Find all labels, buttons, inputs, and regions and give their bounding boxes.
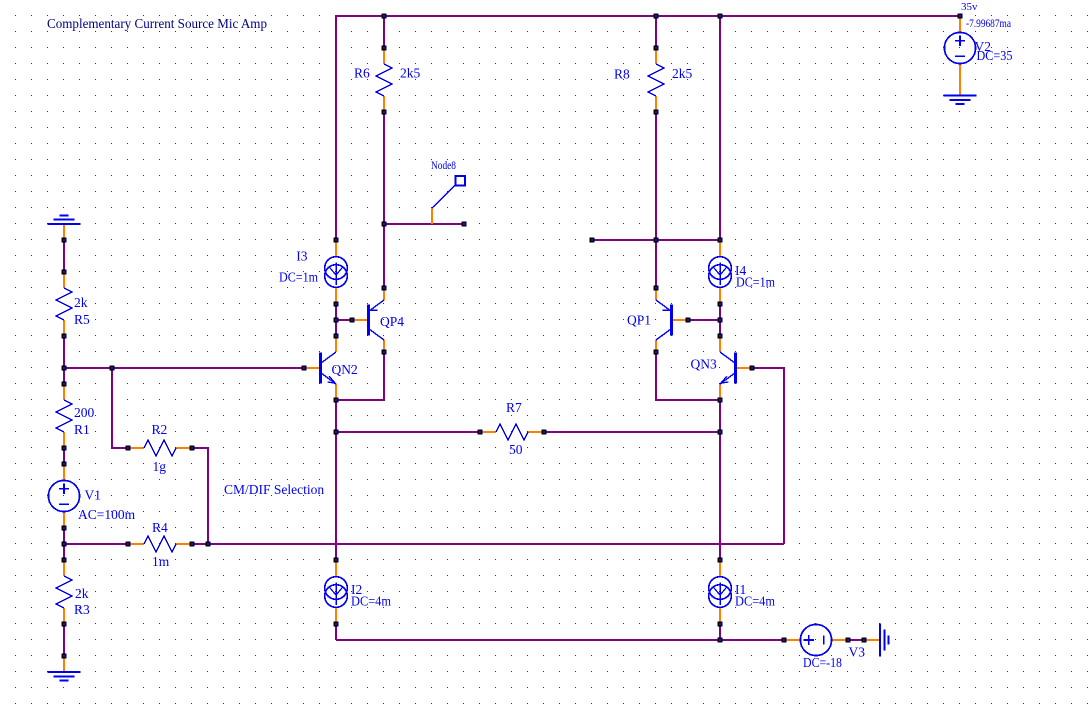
svg-text:DC=4m: DC=4m xyxy=(351,594,391,609)
wire QP4 collector to QN2 emitter xyxy=(336,352,384,400)
wire I3 bottom to QN2 collector node xyxy=(335,304,337,336)
ground GND2 (bottom left) xyxy=(63,656,65,672)
junction (64,272) xyxy=(62,270,67,275)
probe Node8 xyxy=(431,208,433,224)
junction (64,624) xyxy=(62,622,67,627)
wire selection net y544 xyxy=(208,543,784,545)
junction (64,368) xyxy=(62,366,67,371)
wire mid rail to I1 (crosses y544 net) xyxy=(719,432,721,560)
svg-text:R4: R4 xyxy=(152,520,168,535)
junction (720,336) xyxy=(718,334,723,339)
junction (384,16) xyxy=(382,14,387,19)
svg-text:-7.99687ma: -7.99687ma xyxy=(966,18,1011,30)
svg-text:QN3: QN3 xyxy=(691,357,717,372)
junction (656,48) xyxy=(654,46,659,51)
ground GND4 (right of V3) xyxy=(864,639,880,641)
junction (480,432) xyxy=(478,430,483,435)
svg-text:CM/DIF Selection: CM/DIF Selection xyxy=(224,482,324,497)
voltage source V2 xyxy=(959,16,961,33)
svg-text:V1: V1 xyxy=(85,488,102,503)
svg-text:2k5: 2k5 xyxy=(672,66,693,81)
resistor R4 xyxy=(128,543,144,545)
transistor QN2 (NPN) xyxy=(304,367,320,369)
junction (656,352) xyxy=(654,350,659,355)
ground GND3 (below V2) xyxy=(944,95,977,97)
wire R4 right to selection net xyxy=(192,543,208,545)
junction (336,240) xyxy=(334,238,339,243)
junction (336,336) xyxy=(334,334,339,339)
junction (720,432) xyxy=(718,430,723,435)
wire mid rail left of R7 xyxy=(336,431,480,433)
resistor R6 xyxy=(383,48,385,64)
junction (384,112) xyxy=(382,110,387,115)
junction (112,368) xyxy=(110,366,115,371)
junction (64,448) xyxy=(62,446,67,451)
svg-text:50: 50 xyxy=(509,442,523,457)
junction (656,112) xyxy=(654,110,659,115)
junction (64,528) xyxy=(62,526,67,531)
wire top rail +35V net xyxy=(336,15,960,17)
voltage source V3 xyxy=(784,639,801,641)
wire top rail to I4 xyxy=(719,16,721,240)
junction (656,240) xyxy=(654,238,659,243)
wire QP1 base link xyxy=(688,319,720,321)
junction (720,640) xyxy=(718,638,723,643)
junction (688,320) xyxy=(686,318,691,323)
junction (64,336) xyxy=(62,334,67,339)
junction (720,560) xyxy=(718,558,723,563)
junction (720,320) xyxy=(718,318,723,323)
svg-text:DC=1m: DC=1m xyxy=(736,275,775,290)
wire V1 to R3 xyxy=(63,528,65,560)
wire Node8 tap to QP4 emitter xyxy=(383,224,385,288)
junction (656,16) xyxy=(654,14,659,19)
junction (336,560) xyxy=(334,558,339,563)
junction (208,544) xyxy=(206,542,211,547)
junction (384,352) xyxy=(382,350,387,355)
svg-text:DC=1m: DC=1m xyxy=(279,270,318,285)
wire R8/I4 cross link xyxy=(592,239,720,241)
wire selection net up to QN3 base xyxy=(752,368,784,544)
current source I3 xyxy=(335,240,337,257)
junction (464,224) xyxy=(462,222,467,227)
svg-text:2k: 2k xyxy=(75,586,89,601)
junction (304,368) xyxy=(302,366,307,371)
wire mid rail right of R7 xyxy=(544,431,720,433)
wire QP4 base link xyxy=(336,319,352,321)
junction (784,640) xyxy=(782,638,787,643)
junction (336,624) xyxy=(334,622,339,627)
junction (848,640) xyxy=(846,638,851,643)
resistor R2 xyxy=(128,447,144,449)
wire input net to QN2 base xyxy=(64,367,304,369)
svg-text:V3: V3 xyxy=(849,645,866,660)
svg-text:QP1: QP1 xyxy=(627,313,651,328)
wire col x336 top rail to I3 xyxy=(335,16,337,240)
wire R3 to gnd xyxy=(63,624,65,656)
wire gnd to R5 xyxy=(63,240,65,272)
svg-text:R6: R6 xyxy=(354,66,370,81)
svg-text:1g: 1g xyxy=(153,459,167,474)
junction (720,400) xyxy=(718,398,723,403)
junction (384,48) xyxy=(382,46,387,51)
wire V3 to gnd xyxy=(848,639,864,641)
wire V1/R3 node to R4 left xyxy=(64,543,128,545)
junction (336,320) xyxy=(334,318,339,323)
wire R8 bottom to QP1 emitter xyxy=(655,112,657,288)
svg-text:QP4: QP4 xyxy=(380,314,404,329)
current source I2 xyxy=(335,560,337,577)
wire mid rail to I2 (crosses y544 net) xyxy=(335,432,337,560)
svg-text:I3: I3 xyxy=(296,249,307,264)
wire R5 to R1 (input tap) xyxy=(63,336,65,384)
wire R2 right down to selection net xyxy=(192,448,208,544)
junction (592,240) xyxy=(590,238,595,243)
junction (720,240) xyxy=(718,238,723,243)
junction (64,544) xyxy=(62,542,67,547)
junction (64,464) xyxy=(62,462,67,467)
transistor QP4 (PNP) xyxy=(383,288,385,301)
wire I4 bottom to QN3 collector node xyxy=(719,304,721,336)
svg-text:R2: R2 xyxy=(152,422,168,437)
wire top rail to R8 xyxy=(655,16,657,48)
ground GND1 (top left, flipped up) xyxy=(63,224,65,240)
wire top rail to R6 xyxy=(383,16,385,48)
junction (544,432) xyxy=(542,430,547,435)
junction (336,432) xyxy=(334,430,339,435)
wire R1 to V1 xyxy=(63,448,65,464)
junction (192,544) xyxy=(190,542,195,547)
wire QP1 collector to QN3 emitter xyxy=(656,352,720,400)
wire QN3 emitter to mid rail xyxy=(719,400,721,432)
svg-text:R5: R5 xyxy=(74,312,90,327)
svg-text:200: 200 xyxy=(74,405,95,420)
junction (720,624) xyxy=(718,622,723,627)
svg-text:DC=-18: DC=-18 xyxy=(803,655,842,670)
junction (192,448) xyxy=(190,446,195,451)
junction (384,288) xyxy=(382,286,387,291)
resistor R7 xyxy=(480,431,496,433)
junction (960,16) xyxy=(958,14,963,19)
wire branch to R2 left xyxy=(112,368,128,448)
svg-text:35v: 35v xyxy=(961,1,978,13)
svg-text:2k5: 2k5 xyxy=(400,66,421,81)
wire QN2 emitter to mid rail xyxy=(335,400,337,432)
svg-text:DC=4m: DC=4m xyxy=(735,594,775,609)
resistor R8 xyxy=(655,48,657,64)
resistor R5 xyxy=(63,272,65,288)
svg-text:DC=35: DC=35 xyxy=(977,48,1013,63)
junction (64,240) xyxy=(62,238,67,243)
junction (720,304) xyxy=(718,302,723,307)
svg-text:QN2: QN2 xyxy=(332,362,358,377)
resistor R3 xyxy=(63,560,65,576)
junction (752,368) xyxy=(750,366,755,371)
current source I4 xyxy=(719,240,721,257)
junction (336,304) xyxy=(334,302,339,307)
wire node8 stub xyxy=(384,223,464,225)
svg-text:R1: R1 xyxy=(74,422,90,437)
transistor QN3 (NPN) xyxy=(736,367,752,369)
junction (720,16) xyxy=(718,14,723,19)
svg-text:Complementary Current Source M: Complementary Current Source Mic Amp xyxy=(47,16,267,31)
junction (656,288) xyxy=(654,286,659,291)
junction (64,560) xyxy=(62,558,67,563)
wire I1 bottom to bottom rail xyxy=(719,624,721,640)
wire I2 bottom to bottom rail xyxy=(335,624,337,640)
junction (128,448) xyxy=(126,446,131,451)
junction (384,224) xyxy=(382,222,387,227)
junction (864,640) xyxy=(862,638,867,643)
svg-text:1m: 1m xyxy=(152,554,170,569)
svg-text:Node8: Node8 xyxy=(431,160,456,172)
svg-text:R7: R7 xyxy=(506,400,522,415)
transistor QP1 (PNP) xyxy=(655,288,657,301)
junction (64,656) xyxy=(62,654,67,659)
wire bottom rail xyxy=(336,639,784,641)
svg-text:AC=100m: AC=100m xyxy=(78,507,136,522)
junction (64,384) xyxy=(62,382,67,387)
current source I1 xyxy=(719,560,721,577)
junction (352,320) xyxy=(350,318,355,323)
svg-text:2k: 2k xyxy=(74,295,88,310)
svg-text:R3: R3 xyxy=(74,602,90,617)
junction (336,400) xyxy=(334,398,339,403)
junction (128,544) xyxy=(126,542,131,547)
voltage source V1 xyxy=(63,464,65,480)
wire R6 bottom to Node8 tap xyxy=(383,112,385,224)
resistor R1 xyxy=(63,384,65,400)
svg-text:R8: R8 xyxy=(614,67,630,82)
